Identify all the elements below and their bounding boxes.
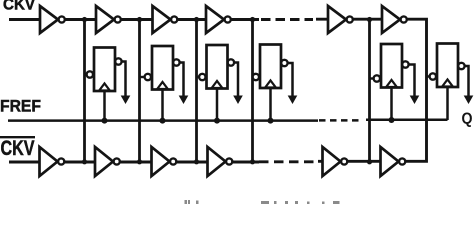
- svg-text:Q: Q: [462, 111, 473, 128]
- svg-text:FREF: FREF: [0, 97, 41, 116]
- svg-text:CKV: CKV: [1, 137, 35, 160]
- svg-text:CKV: CKV: [3, 0, 35, 14]
